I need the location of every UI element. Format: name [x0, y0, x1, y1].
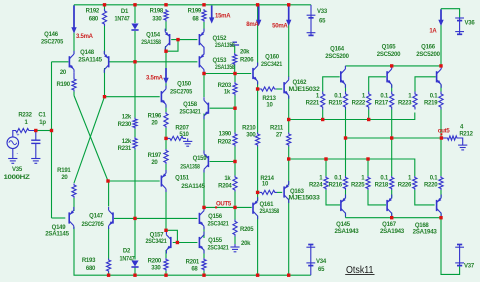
svg-text:12k: 12k — [122, 114, 132, 120]
svg-text:R231: R231 — [118, 146, 132, 152]
wire Q148-Q153 base bus — [109, 61, 198, 63]
wire R225 base link — [367, 159, 369, 176]
wire R213 node — [258, 88, 260, 90]
wire V34 to bottom rail — [310, 266, 312, 276]
svg-text:2SA1145: 2SA1145 — [78, 58, 102, 64]
junction lower collector rail Q168 — [439, 216, 442, 219]
svg-text:R193: R193 — [82, 258, 96, 264]
svg-text:2SC2705: 2SC2705 — [170, 90, 193, 96]
wire Q148 collector drop — [104, 68, 106, 97]
junction input R232 — [34, 129, 37, 132]
wire R222 to bus A — [368, 110, 370, 120]
svg-text:2SC2705: 2SC2705 — [82, 222, 105, 228]
svg-text:1N747: 1N747 — [115, 17, 131, 23]
junction lower collector rail Q167 — [390, 216, 393, 219]
wire Q165 emitter to R217 — [391, 85, 393, 92]
junction bottom rail R193 — [107, 274, 110, 277]
resistor R230 — [118, 114, 137, 129]
transistor Q161 — [252, 197, 280, 219]
resistor R193 — [82, 258, 111, 273]
svg-text:330: 330 — [151, 266, 161, 272]
junction R207 tap — [164, 137, 167, 140]
label C1 — [38, 113, 46, 126]
wire Q153 collector to VAS node — [203, 72, 205, 74]
wire Q147-Q156 base bus — [114, 217, 197, 219]
svg-text:27: 27 — [276, 133, 283, 139]
wire R201 to rail — [203, 271, 205, 275]
wire bias chain R230-R231 gap — [134, 129, 136, 137]
wire Q146 collector column — [73, 5, 75, 54]
svg-text:R199: R199 — [188, 9, 202, 15]
wire R191 to Q149 emitter — [73, 198, 75, 211]
resistor R192 — [86, 9, 107, 27]
junction tail node — [106, 179, 109, 182]
wire comp cap to R206 — [234, 46, 236, 53]
junction upper collector rail Q165 — [390, 64, 393, 67]
transistor Q156 — [199, 207, 230, 229]
transistor Q145 — [335, 195, 360, 235]
junction top rail R192 — [103, 3, 106, 6]
transistor Q157 — [146, 232, 172, 254]
wire Q151 collector to Q157 — [165, 190, 167, 231]
resistor R222 — [352, 92, 371, 110]
svg-text:0.1: 0.1 — [334, 94, 343, 100]
wire out5 load lead — [441, 137, 446, 139]
wire Q158 collector rise — [203, 74, 205, 98]
svg-text:R200: R200 — [148, 259, 162, 265]
svg-text:2SA1943: 2SA1943 — [380, 229, 405, 235]
junction VAS input — [202, 72, 205, 75]
svg-text:D2: D2 — [123, 249, 131, 255]
label 3.5mA VAS — [146, 76, 164, 82]
junction out bus R217 — [390, 136, 393, 139]
junction Q154 collector — [164, 50, 167, 53]
svg-text:1000HZ: 1000HZ — [4, 175, 31, 181]
wire V35 top lead — [12, 131, 15, 138]
svg-text:R207: R207 — [175, 126, 189, 132]
svg-text:R212: R212 — [459, 132, 473, 138]
ground at R207 — [183, 138, 192, 146]
junction Q160 emitter — [256, 87, 259, 90]
wire R200 to rail — [165, 271, 167, 275]
svg-text:20: 20 — [151, 160, 158, 166]
svg-text:R222: R222 — [352, 101, 366, 107]
junction top rail R199 — [202, 3, 205, 6]
title Otsk11 — [345, 265, 374, 276]
wire R193 to rail — [108, 273, 110, 276]
wire R221 to bus A — [322, 110, 324, 120]
transistor Q153 — [199, 51, 236, 73]
wire R225 to Q167 base — [368, 190, 386, 205]
wire R217 to out bus — [391, 110, 393, 139]
svg-text:68: 68 — [191, 267, 198, 273]
wire Q154 collector to Q150 collector — [165, 46, 168, 89]
resistor R201 — [186, 258, 206, 273]
wire Q154-Q152 base bus — [171, 39, 197, 41]
wire Q162 emitter drop — [288, 96, 290, 120]
svg-text:3.5mA: 3.5mA — [146, 76, 164, 82]
wire R202 to Q159 base node — [234, 147, 236, 162]
svg-text:R213: R213 — [262, 96, 276, 102]
ground at R212 — [458, 144, 467, 150]
junction top rail Q160 — [256, 3, 259, 6]
wire Q161 collector to rail — [257, 216, 259, 276]
wire Q164 emitter to R215 — [345, 85, 347, 92]
label V33 — [317, 9, 328, 25]
wire Q147 collector drop — [107, 181, 110, 207]
wire Q157 emitter to R200 — [165, 250, 167, 258]
wire D1 anode lead — [134, 5, 136, 23]
svg-text:Q168: Q168 — [415, 223, 430, 229]
svg-text:2SC3421: 2SC3421 — [261, 62, 283, 68]
svg-text:Q154: Q154 — [146, 33, 161, 39]
wire Q160 emitter node — [257, 81, 259, 89]
resistor R214 — [260, 176, 278, 195]
current arrow 8mA — [256, 6, 261, 27]
label V34 — [316, 259, 327, 273]
wire R205 to ground — [234, 237, 236, 245]
node OUT5 — [215, 202, 232, 209]
wire R199 to Q152 emitter — [203, 22, 205, 31]
wire Q163 emitter rise — [288, 159, 290, 186]
svg-text:Q152: Q152 — [213, 36, 228, 42]
junction bottom rail Q161 — [256, 274, 259, 277]
svg-text:2SA1358: 2SA1358 — [215, 43, 235, 49]
svg-text:2SA1358: 2SA1358 — [180, 165, 200, 171]
svg-text:MJE15032: MJE15032 — [289, 87, 321, 93]
wire Q163 collector to rail — [288, 199, 290, 276]
svg-text:Q157: Q157 — [150, 233, 165, 239]
svg-text:20: 20 — [61, 175, 68, 181]
svg-text:Q146: Q146 — [44, 32, 59, 38]
svg-text:Q160: Q160 — [265, 55, 280, 61]
wire input bias column — [51, 62, 53, 218]
wire Q160e node to R210 — [257, 89, 259, 133]
wire Q159 collector to OUT5 — [203, 170, 205, 208]
transistor Q165 — [377, 45, 401, 88]
svg-text:R192: R192 — [86, 9, 100, 15]
wire node to R204 — [234, 162, 236, 176]
current arrow 15mA — [209, 6, 214, 24]
svg-text:Q162: Q162 — [293, 80, 308, 86]
svg-text:0.1: 0.1 — [430, 176, 439, 182]
svg-text:15mA: 15mA — [215, 14, 231, 20]
resistor R196 — [148, 112, 168, 128]
resistor R206 — [233, 50, 255, 66]
svg-text:Q163: Q163 — [290, 189, 305, 195]
resistor R232 — [14, 113, 33, 133]
svg-text:Q165: Q165 — [382, 45, 397, 51]
junction Q157 base — [176, 241, 179, 244]
wire node to Q150 base — [105, 96, 160, 98]
wire R197 to Q151 emitter — [165, 164, 167, 173]
junction input node — [50, 129, 53, 132]
svg-text:Q150: Q150 — [177, 82, 192, 88]
junction bus C R225 — [366, 157, 369, 160]
wire base bus A — [289, 113, 415, 120]
wire Q157-Q155 base bus — [173, 242, 198, 244]
svg-text:20k: 20k — [241, 241, 251, 247]
wire Q156 emitter to Q155 collector — [203, 227, 205, 238]
svg-text:50mA: 50mA — [272, 23, 288, 29]
transistor Q150 — [161, 82, 193, 108]
current arrow 50mA — [286, 6, 291, 27]
svg-text:0.1: 0.1 — [430, 94, 439, 100]
transistor Q147 — [82, 207, 114, 229]
svg-text:R226: R226 — [398, 183, 412, 189]
svg-text:V37: V37 — [464, 264, 475, 270]
junction Q161 emitter — [256, 191, 259, 194]
wire out bus to R218 — [391, 138, 393, 176]
svg-text:2SA1358: 2SA1358 — [260, 209, 280, 215]
label D2 — [120, 249, 136, 263]
wire lower collector rail — [346, 217, 442, 219]
svg-text:Q158: Q158 — [183, 102, 198, 108]
wire Q155 emitter to R201 — [203, 250, 205, 259]
wire diagonal tail A — [74, 96, 108, 182]
svg-text:20k: 20k — [240, 50, 250, 56]
resistor R217 — [375, 92, 394, 110]
resistor R207 — [167, 126, 190, 141]
wire upper collector rail — [345, 65, 441, 67]
wire node to R202 — [234, 108, 236, 132]
svg-text:1390: 1390 — [219, 132, 232, 138]
wire base bus C — [289, 159, 415, 176]
battery V34 — [306, 245, 315, 266]
svg-text:330: 330 — [152, 17, 162, 23]
label D1 — [115, 9, 131, 23]
battery V37 — [455, 245, 464, 266]
wire R212 elbow to ground — [459, 138, 463, 144]
wire R220 to Q168 emitter — [440, 190, 442, 199]
current arrow 3.5mA input — [71, 6, 76, 34]
wire Q156 collector stub — [203, 207, 205, 210]
svg-text:R232: R232 — [18, 113, 32, 119]
svg-text:2SA1145: 2SA1145 — [45, 232, 69, 238]
resistor R221 — [306, 92, 325, 110]
wire 8mA feed / Q160 collector — [257, 5, 259, 66]
resistor R200 — [148, 258, 168, 272]
svg-text:out5: out5 — [438, 128, 451, 134]
junction Q148 collector — [103, 95, 106, 98]
svg-text:D1: D1 — [121, 9, 129, 15]
resistor R204 — [218, 176, 237, 192]
label 50mA — [272, 23, 288, 29]
svg-text:R191: R191 — [57, 168, 71, 174]
wire R215 to out bus — [345, 110, 347, 139]
wire R219 to out bus — [440, 110, 442, 139]
wire R206 to VAS node — [234, 66, 236, 74]
wire V35 to ground — [12, 149, 14, 156]
wire Q159 base — [210, 161, 235, 163]
svg-text:C1: C1 — [38, 113, 46, 119]
wire lower rail to V37 — [441, 218, 460, 275]
resistor R191 — [57, 168, 76, 198]
junction upper collector rail 1A — [439, 64, 442, 67]
wire bias chain lower — [134, 150, 136, 219]
wire Q162e to R211 — [288, 120, 290, 133]
current arrow 1A — [438, 10, 443, 27]
label 15mA — [215, 14, 231, 20]
svg-text:2SA1943: 2SA1943 — [413, 230, 438, 236]
junction bottom rail Q163 — [287, 274, 290, 277]
junction top rail R198 — [164, 3, 167, 6]
resistor R216 — [328, 176, 347, 190]
wire Q161 emitter lead — [257, 192, 259, 201]
svg-text:0.1: 0.1 — [380, 94, 389, 100]
svg-text:R224: R224 — [309, 183, 323, 189]
svg-text:20: 20 — [60, 70, 67, 76]
junction bus A R221 — [321, 118, 324, 121]
wire Q149 collector to bottom rail — [74, 227, 311, 275]
wire top supply rail — [74, 4, 311, 6]
transistor Q149 — [45, 207, 74, 238]
wire R224 base link — [325, 159, 327, 176]
wire Q151 base bus — [108, 180, 160, 182]
svg-text:1A: 1A — [429, 29, 437, 35]
svg-text:Q153: Q153 — [213, 58, 228, 64]
wire OUT5 bus — [204, 206, 252, 208]
svg-text:510: 510 — [179, 132, 189, 138]
wire Q166 base L — [415, 77, 436, 92]
svg-text:12k: 12k — [122, 139, 132, 145]
svg-text:65: 65 — [319, 19, 326, 25]
wire R210 to Q161 emitter node — [257, 147, 259, 193]
resistor R211 — [270, 126, 291, 147]
source V35 sine — [7, 133, 20, 157]
wire R190 to tail — [73, 92, 75, 96]
wire bias chain upper — [134, 62, 136, 118]
junction OUT5 R204 — [233, 206, 236, 209]
resistor R199 — [188, 9, 206, 23]
junction bottom rail R200 — [164, 274, 167, 277]
resistor R190 — [56, 70, 76, 92]
wire R204 to OUT5 bus — [234, 192, 236, 208]
wire 1A drop to collector rail — [440, 9, 442, 66]
capacitor C1 — [31, 140, 40, 143]
ground at C1 — [31, 156, 40, 164]
svg-text:680: 680 — [86, 266, 96, 272]
wire R216 to Q145 emitter — [345, 190, 347, 199]
label 1A — [429, 29, 437, 35]
svg-text:R215: R215 — [328, 101, 342, 107]
wire out bus B — [346, 137, 442, 139]
junction bottom rail D2 — [133, 274, 136, 277]
wire Q146 emitter lead — [73, 73, 75, 78]
wire D2 to rail — [134, 268, 136, 276]
junction D1 base bus — [133, 60, 136, 63]
current arrow 3.5mA VAS — [163, 68, 168, 84]
battery V33 — [307, 15, 316, 35]
wire Q150 emitter to R196 — [165, 105, 167, 113]
wire R211 to bus C — [288, 147, 290, 160]
resistor R213 — [260, 87, 277, 109]
resistor R205 — [233, 220, 254, 248]
svg-text:R190: R190 — [56, 82, 70, 88]
svg-text:Q151: Q151 — [175, 176, 190, 182]
transistor Q166 — [416, 45, 441, 88]
resistor R197 — [148, 149, 168, 166]
battery V36 — [455, 18, 464, 34]
svg-text:Q166: Q166 — [421, 45, 436, 51]
resistor R202 — [218, 132, 237, 147]
wire R214 to Q163 base — [277, 191, 282, 193]
svg-text:300: 300 — [246, 133, 256, 139]
svg-text:Q161: Q161 — [260, 202, 275, 208]
svg-text:2SC5200: 2SC5200 — [416, 52, 440, 58]
svg-text:2SA1145: 2SA1145 — [181, 184, 205, 190]
wire Q152 collector to Q153 — [203, 47, 205, 55]
resistor R218 — [375, 176, 394, 190]
svg-text:10: 10 — [266, 103, 273, 109]
node out5 — [438, 128, 451, 135]
svg-text:2SC3421: 2SC3421 — [146, 239, 168, 245]
svg-text:R217: R217 — [375, 101, 389, 107]
junction Q159 base — [233, 160, 236, 163]
wire Q158 base — [210, 107, 235, 109]
junction bus C R224 — [324, 157, 327, 160]
wire R224 to Q145 base — [326, 190, 340, 205]
wire D1 to base bus — [134, 31, 136, 62]
wire R203 to Q158 base node — [234, 96, 236, 109]
svg-text:Q149: Q149 — [52, 225, 67, 231]
svg-text:R211: R211 — [270, 126, 284, 132]
svg-text:20: 20 — [151, 121, 158, 127]
svg-text:1k: 1k — [224, 176, 231, 182]
ground at V35 — [8, 156, 17, 164]
diode D1 — [131, 24, 138, 31]
resistor R203 — [218, 82, 237, 96]
wire R213 to Q162 base — [277, 88, 283, 90]
wire R232 to C1 node — [29, 130, 52, 132]
svg-text:R220: R220 — [424, 183, 438, 189]
svg-text:R206: R206 — [240, 57, 254, 63]
junction R211 bus C — [287, 157, 290, 160]
wire VAS to R203 — [234, 74, 236, 83]
resistor R224 — [309, 176, 328, 190]
svg-text:1N747: 1N747 — [120, 257, 136, 263]
svg-text:R219: R219 — [424, 101, 438, 107]
wire R192 to Q148 emitter — [104, 26, 106, 55]
svg-text:Q156: Q156 — [208, 214, 223, 220]
wire Q146 base — [52, 61, 69, 63]
svg-text:2SC3421: 2SC3421 — [208, 222, 230, 228]
svg-text:R198: R198 — [150, 9, 164, 15]
wire out bus to R216 — [345, 138, 347, 176]
junction Q147 base — [133, 217, 136, 220]
junction Q154 base tie — [176, 38, 179, 41]
junction Q158 base — [233, 107, 236, 110]
svg-text:3.5mA: 3.5mA — [76, 34, 94, 40]
junction Q162 emitter — [287, 118, 290, 121]
svg-text:R230: R230 — [118, 122, 132, 128]
svg-text:1p: 1p — [39, 120, 46, 126]
svg-text:2SC5200: 2SC5200 — [325, 54, 349, 60]
capacitor comp — [230, 42, 239, 45]
svg-text:0.1: 0.1 — [380, 176, 389, 182]
diode D2 — [131, 261, 138, 268]
resistor R219 — [424, 92, 443, 110]
transistor Q162 — [283, 77, 320, 99]
svg-text:Q155: Q155 — [208, 238, 223, 244]
svg-text:R225: R225 — [351, 183, 365, 189]
wire V33 lead — [310, 5, 312, 15]
wire OUT5 to R205 — [234, 207, 236, 219]
wire 50mA feed / Q162 collector — [288, 5, 290, 77]
transistor Q154 — [141, 29, 170, 51]
wire Q166 emitter to R219 — [440, 85, 442, 92]
wire bias chain to D2 — [134, 218, 136, 259]
